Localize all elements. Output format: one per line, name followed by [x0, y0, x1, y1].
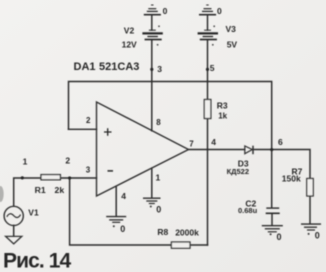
- svg-text:0: 0: [315, 231, 320, 241]
- svg-text:0: 0: [163, 6, 168, 16]
- svg-text:R8: R8: [157, 227, 168, 237]
- svg-text:Рис. 14: Рис. 14: [3, 250, 72, 272]
- svg-text:3: 3: [86, 166, 91, 175]
- svg-text:V3: V3: [226, 24, 237, 34]
- svg-text:2k: 2k: [55, 185, 65, 195]
- svg-text:7: 7: [189, 140, 194, 149]
- svg-text:6: 6: [278, 137, 283, 147]
- svg-text:V2: V2: [124, 26, 135, 36]
- svg-text:12V: 12V: [122, 39, 137, 49]
- svg-text:8: 8: [156, 118, 161, 127]
- svg-text:2: 2: [86, 116, 91, 125]
- svg-text:3: 3: [157, 64, 162, 74]
- svg-text:R1: R1: [35, 185, 46, 195]
- svg-text:R3: R3: [217, 100, 228, 110]
- svg-text:1: 1: [156, 173, 161, 183]
- svg-text:1k: 1k: [218, 112, 227, 121]
- svg-text:4: 4: [121, 191, 126, 201]
- svg-text:V1: V1: [28, 207, 39, 217]
- svg-text:КД522: КД522: [227, 167, 249, 176]
- svg-text:0: 0: [277, 232, 282, 242]
- svg-text:5: 5: [210, 63, 215, 73]
- svg-text:0: 0: [217, 6, 222, 16]
- svg-text:150k: 150k: [282, 173, 301, 183]
- svg-text:DA1521CA3: DA1521CA3: [74, 61, 140, 73]
- svg-text:2000k: 2000k: [175, 228, 199, 238]
- svg-text:4: 4: [211, 137, 216, 147]
- svg-text:2: 2: [65, 156, 70, 166]
- svg-text:0.68u: 0.68u: [238, 206, 258, 215]
- svg-text:1: 1: [23, 156, 28, 166]
- svg-text:5V: 5V: [227, 40, 238, 50]
- svg-text:0: 0: [120, 224, 125, 234]
- svg-text:0: 0: [156, 204, 161, 214]
